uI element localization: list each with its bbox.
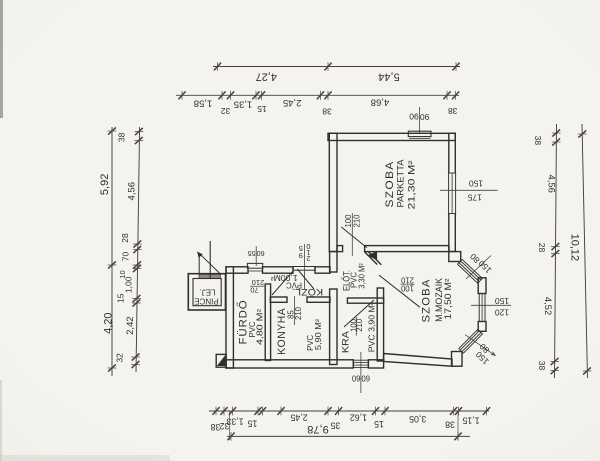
wall FURDO-KONYHA (V2): [265, 284, 270, 361]
door swing KRA: [344, 300, 374, 327]
bay mid window 120/150: [478, 294, 486, 322]
svg-text:120: 120: [495, 307, 509, 317]
bay window label 80/150 upper: [466, 251, 493, 279]
entry door leaf: [293, 267, 315, 271]
svg-text:150: 150: [469, 178, 483, 188]
svg-text:60: 60: [351, 374, 360, 383]
svg-text:21,30 M²: 21,30 M²: [407, 161, 417, 210]
wall KOZL bottom (H4l): [270, 297, 330, 302]
window 90/90 in top wall: [408, 131, 431, 138]
svg-text:3,30 M²: 3,30 M²: [357, 263, 366, 289]
left dimension line totals 5,92 / 4,20: [99, 127, 116, 376]
svg-text:SZOBA: SZOBA: [384, 161, 396, 208]
bottom dimension line segments: [209, 407, 490, 440]
left dimension line segments: [114, 127, 143, 372]
svg-text:2,42: 2,42: [125, 316, 136, 335]
svg-text:60: 60: [361, 374, 370, 383]
svg-text:4,27: 4,27: [256, 70, 277, 82]
svg-text:1,00: 1,00: [123, 276, 133, 293]
wall bottom left section (H5l): [226, 360, 353, 368]
wall bottom under KRA right: [368, 360, 383, 368]
bay upper diagonal window: [457, 259, 482, 283]
svg-text:70: 70: [120, 252, 130, 262]
svg-text:KÖZL.: KÖZL.: [292, 287, 323, 297]
door label 95/210 entry: [299, 242, 311, 289]
svg-text:100: 100: [400, 284, 414, 293]
svg-text:PARKETTA: PARKETTA: [395, 160, 405, 208]
room label FURDO: [235, 300, 264, 346]
basement stair arrow: [198, 241, 220, 279]
svg-text:4,20: 4,20: [102, 312, 114, 333]
wall between rooms left part: [337, 246, 343, 252]
room label KRA: [340, 302, 376, 353]
svg-text:1,62: 1,62: [350, 413, 367, 423]
svg-text:9: 9: [299, 251, 303, 260]
svg-text:38: 38: [537, 361, 547, 371]
bay window label 80/150 lower: [465, 335, 496, 367]
svg-text:4,80 M²: 4,80 M²: [255, 309, 264, 345]
bay lower diagonal window: [459, 329, 483, 353]
window label 90/90: [409, 107, 429, 133]
svg-text:4,56: 4,56: [127, 182, 138, 201]
bay lower pillar: [452, 352, 463, 367]
door label 85/210 kitchen: [286, 296, 303, 325]
svg-text:PINCE: PINCE: [194, 296, 218, 305]
top dimension line totals 4,27 / 5,44: [213, 62, 460, 82]
door label 70/210 bathroom: [250, 278, 266, 295]
svg-text:10,12: 10,12: [569, 234, 581, 262]
svg-text:210: 210: [294, 306, 303, 320]
flue box at outer wall: [216, 354, 226, 367]
svg-text:210: 210: [355, 318, 364, 332]
svg-text:17,50 M²: 17,50 M²: [443, 278, 453, 319]
svg-text:15: 15: [115, 293, 125, 303]
svg-text:5,44: 5,44: [378, 70, 399, 82]
wall KRA top (H4r): [347, 298, 383, 303]
entry marker triangle: [368, 252, 376, 259]
wall between rooms right part: [365, 246, 449, 252]
bay mid upper corner: [478, 278, 486, 294]
svg-text:90: 90: [420, 112, 430, 122]
svg-text:2,45: 2,45: [283, 97, 302, 108]
svg-text:4,68: 4,68: [371, 96, 390, 107]
svg-text:15: 15: [248, 418, 258, 428]
svg-text:4,56: 4,56: [545, 174, 556, 193]
window 55/60 in top wall: [247, 263, 262, 271]
basement label: [194, 287, 218, 305]
svg-text:LEJ.: LEJ.: [199, 287, 215, 296]
wall left of big room: [329, 133, 337, 251]
wall bottom of right room (H5r): [384, 354, 452, 367]
window label 55/60: [248, 246, 265, 266]
room label ELOT: [342, 263, 367, 291]
svg-text:32: 32: [114, 353, 124, 363]
door label 100/210 KRA: [349, 317, 364, 336]
svg-text:15: 15: [257, 104, 267, 114]
door swing entry right: [297, 269, 314, 289]
top dimension line segments: [176, 91, 459, 117]
door swing big room: [341, 227, 367, 248]
svg-text:28: 28: [120, 233, 130, 243]
svg-text:38: 38: [448, 106, 458, 116]
svg-text:5,90 M²: 5,90 M²: [314, 319, 323, 350]
door label 100/210 hallway-room: [400, 276, 414, 293]
wall section top (H3): [226, 267, 330, 273]
svg-text:90: 90: [409, 112, 419, 122]
svg-text:175: 175: [467, 193, 481, 203]
door swing entry left: [272, 271, 293, 295]
svg-text:38: 38: [533, 136, 543, 146]
svg-text:1,15: 1,15: [462, 416, 479, 426]
door label 100/210 big room: [344, 213, 361, 256]
basement stair box PINCE LEJ.: [188, 274, 225, 310]
bay window label 120/150: [471, 296, 511, 318]
window 60/60 in bottom wall: [353, 360, 368, 368]
svg-text:38: 38: [211, 422, 221, 432]
room label SZOBA PARKETTA: [384, 160, 417, 210]
room label SZOBA M.MOZAIK: [421, 278, 453, 323]
svg-text:KRA: KRA: [340, 330, 351, 353]
svg-text:KONYHA: KONYHA: [276, 308, 288, 355]
room label KONYHA: [276, 308, 323, 355]
svg-text:3,05: 3,05: [409, 414, 426, 424]
svg-text:2: 2: [306, 254, 310, 263]
svg-text:PVC 3,90 M²: PVC 3,90 M²: [367, 302, 376, 352]
svg-text:1,33: 1,33: [226, 417, 243, 427]
svg-text:35: 35: [330, 421, 340, 431]
svg-text:SZOBA: SZOBA: [421, 279, 433, 323]
bay upper pillar: [449, 252, 461, 262]
svg-text:4,52: 4,52: [542, 297, 553, 316]
door swing hallway-room: [379, 275, 420, 307]
svg-text:38: 38: [322, 107, 332, 117]
window label 60/60: [351, 352, 370, 393]
svg-text:1,58: 1,58: [194, 97, 213, 108]
svg-text:38: 38: [116, 132, 126, 142]
svg-text:2,45: 2,45: [290, 413, 307, 423]
svg-text:28: 28: [537, 243, 547, 253]
svg-text:210: 210: [352, 214, 361, 228]
svg-text:55: 55: [248, 249, 256, 258]
wall center vertical (V3): [330, 252, 337, 365]
svg-text:38: 38: [445, 420, 455, 430]
svg-text:1,35: 1,35: [234, 98, 253, 109]
right dimension line segments: [533, 124, 561, 378]
window 175/150 in right wall: [448, 173, 456, 214]
svg-text:15: 15: [374, 419, 384, 429]
svg-text:150: 150: [495, 296, 509, 306]
window label 175/150: [440, 178, 498, 202]
svg-text:32: 32: [221, 106, 231, 116]
svg-text:60: 60: [257, 249, 265, 258]
svg-text:70: 70: [250, 286, 258, 295]
svg-text:9,78: 9,78: [307, 423, 328, 435]
svg-text:5,92: 5,92: [99, 174, 111, 195]
bay mid lower corner: [478, 322, 486, 332]
bottom dimension line total 9,78: [227, 423, 470, 441]
wall outer left (V1): [226, 267, 233, 368]
room label KOZL: [270, 273, 323, 297]
corner diagonal wall of hallway: [365, 252, 382, 265]
wall top of big room: [328, 133, 455, 140]
svg-text:210: 210: [400, 276, 414, 285]
wall right of big room: [449, 133, 456, 251]
wall hallway-room (V4) lower: [377, 288, 383, 361]
right dimension line total 10,12: [569, 124, 592, 378]
